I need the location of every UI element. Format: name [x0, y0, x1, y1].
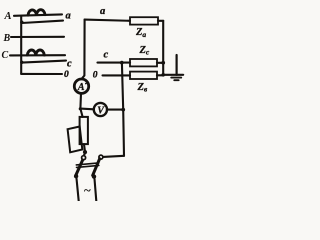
junction dot c	[120, 61, 124, 65]
switch S contact right	[99, 155, 103, 159]
svg-text:c: c	[104, 50, 109, 61]
svg-text:Zв: Zв	[137, 82, 148, 94]
wire Zv to right bus	[157, 74, 163, 76]
CT TA2 secondary wire	[22, 61, 66, 63]
switch S contact left	[82, 156, 86, 160]
wire junction to left contact	[83, 154, 86, 155]
svg-text:Zc: Zc	[139, 45, 150, 57]
CT TA1 primary coil	[28, 10, 45, 15]
switch crossbar	[76, 163, 98, 165]
right bus vertical wire	[162, 21, 164, 75]
junction dot switch	[83, 150, 87, 154]
zero wire (left)	[21, 73, 62, 75]
junction blob T node	[79, 107, 82, 110]
wire rheostat to junction	[83, 144, 86, 151]
junction dot Zc bus	[161, 61, 165, 65]
svg-text:Za: Za	[135, 27, 146, 39]
svg-text:C: C	[2, 50, 9, 61]
svg-text:B: B	[3, 33, 11, 44]
switch blade right	[93, 159, 100, 176]
ground	[171, 55, 181, 80]
svg-text:0: 0	[64, 70, 69, 80]
wire to AC source left	[77, 178, 79, 201]
wire a to Za	[85, 20, 130, 21]
junction dot V bus	[121, 108, 125, 112]
junction blob right bus corner	[161, 73, 165, 77]
wire Zc to right bus	[157, 62, 163, 64]
svg-text:c: c	[67, 59, 72, 70]
phase A wire	[14, 14, 62, 15]
resistor Zc	[130, 59, 157, 66]
secondary bus vertical wire	[20, 16, 22, 74]
svg-text:0: 0	[93, 70, 98, 80]
wire ammeter to T node	[79, 93, 82, 108]
junction blob C secondary	[20, 61, 23, 64]
wire to AC source right	[95, 179, 97, 201]
ground wire	[163, 74, 183, 76]
measuring bus vertical wire	[122, 63, 124, 156]
wire T node to voltmeter	[80, 108, 93, 111]
switch crossbar lower line	[77, 165, 99, 167]
svg-text:A: A	[77, 82, 85, 93]
wire Za to right bus	[158, 20, 163, 22]
CT TA1 secondary wire	[22, 21, 63, 23]
phase B wire	[11, 36, 64, 38]
wire c to Zc	[98, 62, 131, 64]
switch hinge dot right	[92, 174, 96, 178]
resistor Za	[130, 17, 158, 24]
rheostat slider box	[68, 127, 83, 153]
wire voltmeter to measuring bus	[107, 109, 123, 111]
wire T node to rheostat	[80, 109, 82, 117]
switch hinge dot left	[74, 174, 78, 178]
wire 0 to Zv	[103, 74, 131, 76]
svg-text:A: A	[4, 11, 12, 22]
wire bus to switch contact	[103, 156, 124, 157]
svg-text:~: ~	[84, 183, 92, 198]
CT TA2 primary coil	[27, 50, 44, 55]
resistor Zv	[130, 72, 157, 79]
phase C wire	[10, 54, 65, 56]
wire a-bus to ammeter	[82, 20, 84, 79]
ammeter P1	[74, 79, 88, 93]
switch blade left	[76, 160, 83, 175]
svg-text:a: a	[100, 6, 105, 17]
junction blob A secondary	[20, 21, 23, 24]
rheostat R body	[80, 117, 88, 144]
voltmeter P2	[94, 103, 107, 117]
svg-text:a: a	[66, 11, 71, 22]
